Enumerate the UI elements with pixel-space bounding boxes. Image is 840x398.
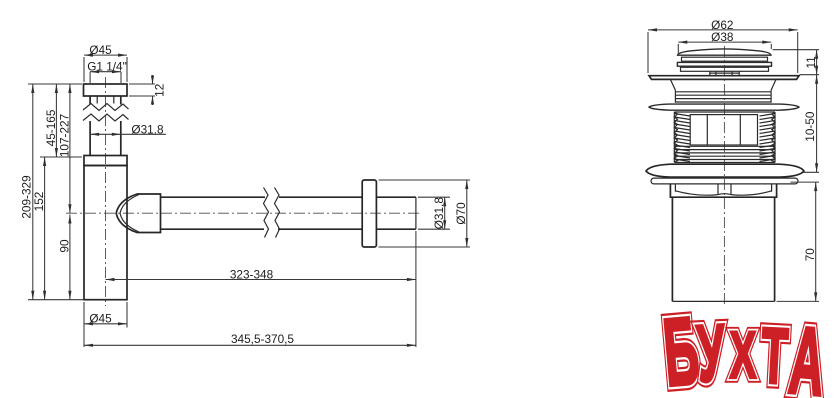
dimension 90 bbox=[57, 215, 71, 300]
pipe left segment bbox=[161, 197, 266, 229]
watermark letter A bbox=[786, 306, 829, 398]
svg-text:10-50: 10-50 bbox=[803, 111, 817, 142]
dimension 12 (flange height) bbox=[129, 75, 167, 105]
extension line collar top left bbox=[40, 156, 82, 158]
svg-text:45-165: 45-165 bbox=[44, 109, 58, 146]
dimension G1 1/4" bbox=[87, 60, 127, 84]
top flange bbox=[649, 76, 799, 80]
cap plate 3 bbox=[681, 67, 769, 71]
tube break zigzag upper bbox=[83, 104, 129, 111]
dimension 11 bbox=[773, 50, 820, 75]
main body top edge bbox=[674, 111, 775, 113]
dimension 152 bbox=[32, 157, 46, 300]
extension line cup bottom left bbox=[28, 299, 84, 301]
svg-text:152: 152 bbox=[32, 192, 46, 212]
cap plate 1 bbox=[682, 57, 768, 61]
svg-text:345,5-370,5: 345,5-370,5 bbox=[231, 332, 294, 346]
window divider 2 bbox=[739, 115, 741, 145]
dimension Ø70 escutcheon bbox=[379, 180, 471, 247]
left thread sawtooth bbox=[674, 114, 690, 162]
watermark letter T bbox=[759, 313, 790, 398]
dimension 345,5-370,5 bbox=[84, 332, 416, 347]
hex facet lines bbox=[675, 184, 771, 194]
svg-text:Ø31.8: Ø31.8 bbox=[432, 197, 446, 230]
centerline vertical (cup axis) bbox=[105, 77, 107, 306]
dimension Ø45 top bbox=[84, 43, 127, 82]
watermark letter U bbox=[695, 308, 728, 398]
svg-text:Ø70: Ø70 bbox=[454, 202, 468, 225]
svg-text:Ø31.8: Ø31.8 bbox=[131, 122, 164, 136]
washer lens bbox=[649, 104, 799, 110]
dimension 45-165 bbox=[44, 84, 58, 157]
body window bbox=[690, 115, 757, 145]
svg-text:323-348: 323-348 bbox=[230, 267, 274, 281]
centerline horizontal (pipe axis) bbox=[66, 212, 421, 214]
collar nut on cup bbox=[84, 156, 127, 166]
elbow chamfer lines bbox=[120, 195, 139, 233]
neck taper under flange bbox=[670, 79, 776, 90]
svg-text:12: 12 bbox=[153, 84, 167, 97]
watermark letter B bbox=[659, 297, 702, 398]
svg-text:Ø45: Ø45 bbox=[89, 312, 112, 326]
cap plate 2 bbox=[677, 62, 771, 66]
tube break zigzag lower bbox=[83, 114, 129, 121]
tube inner wall lines bbox=[97, 96, 114, 104]
cup body bbox=[84, 166, 127, 300]
dimension Ø31.8 pipe end bbox=[418, 197, 450, 230]
svg-text:107-227: 107-227 bbox=[57, 114, 71, 157]
dimension Ø38 bbox=[678, 30, 771, 56]
pipe break zigzag left bbox=[264, 188, 269, 238]
svg-text:G1 1/4": G1 1/4" bbox=[87, 60, 127, 74]
dimension Ø62 bbox=[648, 18, 798, 73]
extension pipe end down bbox=[415, 231, 417, 347]
svg-text:90: 90 bbox=[57, 239, 71, 253]
elbow nut bbox=[116, 194, 160, 233]
extension cup bottom-right down bbox=[126, 302, 128, 328]
dimension 10-50 bbox=[803, 75, 819, 173]
hex facet arcs bbox=[675, 191, 771, 195]
thread band upper bbox=[675, 90, 771, 103]
lower threads bbox=[675, 146, 776, 162]
svg-text:Х: Х bbox=[730, 318, 756, 392]
pipe break zigzag right bbox=[275, 188, 280, 238]
svg-text:Т: Т bbox=[759, 313, 790, 398]
pipe right segment bbox=[278, 197, 416, 229]
dimension Ø45 bottom bbox=[84, 312, 127, 326]
wall escutcheon flange bbox=[362, 180, 376, 247]
extension line flange top left bbox=[28, 83, 82, 85]
flange (top nut) bbox=[84, 84, 128, 96]
window divider 1 bbox=[706, 115, 708, 145]
tailpipe bbox=[672, 197, 774, 301]
dimension 323-348 bbox=[106, 267, 416, 281]
bottom flange lens bbox=[646, 164, 804, 177]
dimension 70 bbox=[777, 182, 819, 301]
svg-text:Ø45: Ø45 bbox=[89, 43, 112, 57]
dimension 107-227 bbox=[57, 84, 71, 213]
tube lower segment outer walls bbox=[90, 121, 121, 156]
lower thin lens bbox=[651, 178, 798, 184]
cap dome bbox=[678, 49, 771, 55]
centerline vertical (valve axis) bbox=[723, 46, 725, 306]
svg-text:70: 70 bbox=[803, 248, 817, 262]
watermark letter H bbox=[730, 318, 756, 392]
hex nut outline bbox=[670, 184, 776, 197]
right thread sawtooth bbox=[760, 114, 776, 162]
body side crests bbox=[674, 112, 775, 163]
tailpipe end bbox=[672, 300, 774, 302]
svg-text:У: У bbox=[695, 308, 728, 398]
svg-text:Ø38: Ø38 bbox=[711, 30, 734, 44]
dimension 209-329 bbox=[20, 84, 35, 300]
plug stem bbox=[710, 71, 739, 75]
svg-text:11: 11 bbox=[804, 56, 818, 68]
dimension Ø31.8 tube bbox=[90, 122, 166, 136]
tube upper segment outer walls bbox=[90, 96, 121, 105]
extension cup bottom-left down bbox=[83, 302, 85, 347]
pipe open end bbox=[415, 197, 417, 229]
